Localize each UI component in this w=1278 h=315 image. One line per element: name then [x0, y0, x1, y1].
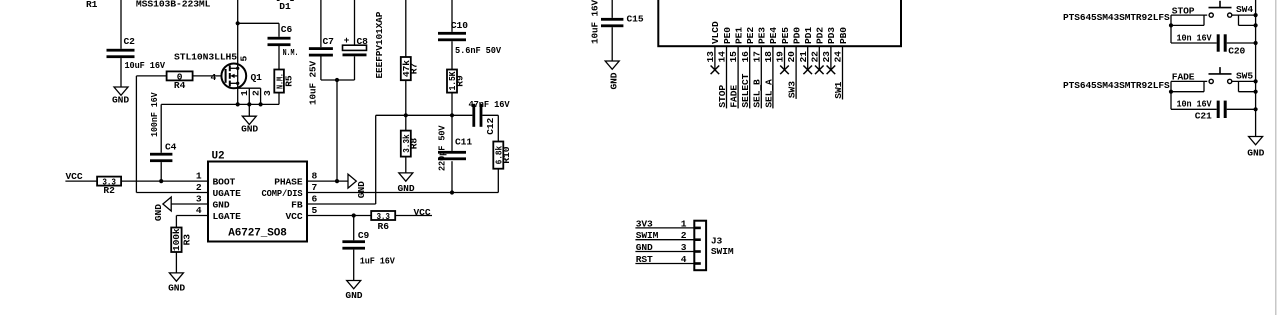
net label STOP [1172, 5, 1195, 16]
pin 13 VLCD [705, 21, 721, 70]
svg-text:10n 16V: 10n 16V [1177, 99, 1212, 110]
svg-text:C15: C15 [627, 13, 644, 24]
pin 15 PE1 [728, 27, 744, 109]
svg-text:R3: R3 [182, 234, 193, 246]
svg-text:C7: C7 [323, 36, 335, 47]
ground [241, 104, 258, 134]
ic U? MCU (body mostly above crop) [658, 0, 901, 46]
svg-text:GND: GND [1247, 148, 1264, 159]
svg-text:COMP/DIS: COMP/DIS [262, 188, 303, 199]
svg-text:PE0: PE0 [722, 27, 733, 44]
wire [451, 93, 453, 116]
pin 21 PD1 [798, 27, 814, 70]
resistor R4 [136, 71, 192, 91]
svg-text:C10: C10 [451, 20, 468, 31]
pin 18 PE4 [763, 27, 779, 109]
svg-text:PE3: PE3 [757, 27, 768, 44]
pin 5 label [238, 56, 249, 62]
wire pin3 [171, 203, 208, 205]
junction [352, 213, 356, 217]
svg-text:SWIM: SWIM [636, 230, 659, 241]
net label SWIM [636, 230, 659, 241]
svg-text:SELECT: SELECT [740, 73, 751, 107]
pin 2 label [251, 90, 262, 96]
svg-text:23: 23 [821, 51, 832, 63]
pin 14 PE0 [717, 27, 733, 109]
svg-text:R2: R2 [103, 185, 115, 196]
net label 3V3 [636, 218, 653, 229]
svg-text:PHASE: PHASE [274, 176, 303, 187]
wire [1171, 14, 1207, 16]
junction [335, 179, 339, 183]
net label SW3 [787, 81, 798, 98]
push-button SW5 part label [1063, 80, 1170, 91]
wire [482, 115, 498, 141]
connector J3 [635, 221, 733, 271]
capacitor C20 [1171, 32, 1256, 56]
svg-text:SW1: SW1 [833, 81, 844, 98]
wire [1171, 80, 1207, 82]
resistor R8 [401, 115, 420, 156]
svg-text:4: 4 [681, 254, 687, 265]
junction [1169, 90, 1173, 94]
resistor R5 [274, 70, 294, 93]
wire [120, 0, 122, 49]
svg-text:GND: GND [213, 199, 230, 210]
resistor R2 [97, 176, 121, 196]
svg-text:PE2: PE2 [745, 27, 756, 44]
capacitor C11 [436, 115, 472, 192]
svg-text:U2: U2 [212, 150, 225, 162]
svg-text:1: 1 [681, 218, 687, 229]
wire [238, 23, 279, 37]
wire [120, 58, 122, 87]
wire [121, 180, 208, 182]
svg-text:100nF 16V: 100nF 16V [149, 92, 160, 137]
resistor R9 [447, 70, 466, 93]
svg-text:3: 3 [681, 242, 687, 253]
svg-text:10uF 16V: 10uF 16V [589, 0, 600, 44]
svg-text:16: 16 [740, 51, 751, 63]
pin 3 label [262, 90, 273, 96]
svg-text:R5: R5 [284, 75, 295, 87]
sheet border [1275, 0, 1277, 315]
wire [1171, 15, 1204, 25]
wire [336, 80, 338, 181]
svg-text:+: + [344, 35, 350, 46]
wire phase/source rail [161, 103, 279, 105]
svg-text:PD3: PD3 [826, 27, 837, 44]
svg-text:14: 14 [717, 51, 728, 63]
junction [236, 102, 263, 106]
ground [112, 87, 129, 106]
svg-text:18: 18 [763, 51, 774, 63]
svg-text:1uF 16V: 1uF 16V [360, 256, 395, 267]
svg-text:1: 1 [196, 171, 202, 182]
svg-text:LGATE: LGATE [213, 211, 242, 222]
no-connect X [711, 66, 720, 75]
wire [1232, 80, 1256, 82]
svg-text:2: 2 [196, 182, 202, 193]
wire [136, 76, 208, 193]
ground [153, 197, 171, 221]
node VCC [65, 171, 97, 182]
junction [1254, 13, 1258, 28]
junction [1254, 79, 1258, 93]
svg-text:2: 2 [681, 230, 687, 241]
wire [1239, 15, 1256, 25]
svg-text:BOOT: BOOT [213, 176, 236, 187]
svg-text:10uF 25V: 10uF 25V [307, 61, 318, 105]
push-button SW4 [1209, 1, 1254, 17]
wire [1170, 15, 1172, 43]
svg-text:3: 3 [196, 193, 202, 204]
svg-text:6: 6 [312, 193, 318, 204]
svg-text:R7: R7 [409, 63, 420, 75]
pin 1 label [239, 90, 250, 96]
net label STOP [717, 85, 728, 108]
svg-text:PTS645SM43SMTR92LFS: PTS645SM43SMTR92LFS [1063, 80, 1170, 91]
svg-text:2: 2 [251, 90, 262, 96]
capacitor C6 [268, 24, 299, 58]
resistor R6 [371, 211, 395, 232]
svg-text:R10: R10 [501, 146, 512, 163]
svg-text:R6: R6 [378, 221, 390, 232]
pin 16 PE2 [740, 27, 756, 109]
svg-text:J3: J3 [711, 235, 723, 246]
svg-text:5.6nF 50V: 5.6nF 50V [455, 45, 501, 56]
svg-text:47nF 16V: 47nF 16V [469, 99, 510, 110]
svg-text:GND: GND [112, 95, 129, 106]
svg-text:GND: GND [241, 124, 258, 135]
wire [321, 79, 355, 81]
svg-text:FB: FB [291, 199, 303, 210]
pin labels 1-4 [681, 218, 687, 265]
ground [398, 173, 415, 194]
svg-text:STOP: STOP [717, 85, 728, 108]
svg-text:N.M.: N.M. [283, 47, 299, 58]
resistor R7 [401, 0, 420, 80]
pin 22 PD2 [809, 27, 825, 70]
net label SEL_B [752, 79, 763, 108]
junction [1254, 41, 1258, 45]
pin 19 PE5 [775, 27, 791, 70]
svg-text:8: 8 [312, 171, 318, 182]
wire [193, 75, 222, 77]
svg-text:20: 20 [786, 51, 797, 63]
wire pin4 [176, 216, 208, 228]
capacitor C15 [589, 0, 644, 61]
svg-text:C20: C20 [1228, 46, 1245, 57]
junction [1169, 23, 1173, 27]
svg-text:GND: GND [356, 181, 367, 198]
svg-text:GND: GND [398, 183, 415, 194]
no-connect X [815, 66, 824, 75]
wire pin8 [307, 180, 348, 182]
svg-text:EEEFPV101XAP: EEEFPV101XAP [374, 11, 385, 78]
svg-text:C12: C12 [485, 117, 496, 134]
svg-text:PE4: PE4 [768, 27, 779, 44]
capacitor C7 [307, 0, 334, 105]
svg-text:Q1: Q1 [251, 72, 263, 83]
wire pin7 [307, 192, 498, 194]
svg-text:C2: C2 [124, 36, 136, 47]
svg-text:RST: RST [636, 254, 653, 265]
net label RST [636, 254, 653, 265]
svg-text:C6: C6 [281, 24, 293, 35]
pin 24 PB0 [833, 27, 849, 100]
svg-text:VCC: VCC [414, 207, 431, 218]
svg-text:PD1: PD1 [803, 27, 814, 44]
svg-text:21: 21 [798, 51, 809, 63]
net label SW1 [833, 81, 844, 98]
ground [345, 281, 362, 302]
svg-text:SWIM: SWIM [711, 246, 734, 257]
net label SEL_A [763, 79, 774, 108]
svg-text:SEL_B: SEL_B [752, 79, 763, 108]
svg-text:C21: C21 [1195, 111, 1212, 122]
junction [404, 113, 454, 117]
wire [278, 93, 280, 105]
svg-text:R4: R4 [174, 80, 186, 91]
svg-text:1: 1 [239, 90, 250, 96]
resistor R10 [493, 142, 512, 169]
svg-text:UGATE: UGATE [213, 188, 242, 199]
no-connect X [780, 66, 789, 75]
capacitor C10 [438, 0, 501, 70]
svg-text:VCC: VCC [66, 171, 83, 182]
svg-text:PB0: PB0 [838, 27, 849, 44]
net label SELECT [740, 73, 751, 107]
wire [175, 252, 177, 273]
svg-text:PD0: PD0 [791, 27, 802, 44]
capacitor C8 (polarized) [343, 0, 385, 80]
svg-text:D1: D1 [279, 1, 291, 12]
wire [237, 0, 239, 68]
svg-text:22: 22 [809, 51, 820, 63]
resistor R3 [171, 228, 192, 253]
svg-text:4: 4 [211, 72, 217, 83]
diode D1 (refdes label, body above crop) [277, 0, 294, 12]
svg-text:C9: C9 [358, 230, 370, 241]
svg-text:GND: GND [345, 290, 362, 301]
svg-text:A6727_SO8: A6727_SO8 [228, 227, 287, 239]
svg-text:24: 24 [833, 51, 844, 63]
svg-text:R9: R9 [455, 75, 466, 87]
svg-text:15: 15 [728, 51, 739, 63]
resistor R1 (refdes label, body above crop) [86, 0, 98, 10]
junction [335, 78, 339, 82]
transistor Q1 [221, 64, 262, 105]
capacitor C4 [149, 92, 177, 181]
svg-text:GND: GND [608, 72, 619, 89]
wire pin5 [307, 215, 371, 217]
net label FADE [1172, 72, 1195, 83]
push-button SW4 part label [1063, 12, 1170, 23]
svg-text:3: 3 [262, 90, 273, 96]
svg-text:SW3: SW3 [787, 81, 798, 98]
svg-text:GND: GND [636, 242, 653, 253]
wire [405, 80, 407, 115]
no-connect X [803, 66, 812, 75]
wire [1239, 81, 1256, 91]
ground [605, 61, 619, 90]
svg-text:VCC: VCC [286, 211, 303, 222]
wire right bus [1255, 0, 1257, 137]
svg-text:VLCD: VLCD [710, 21, 721, 44]
node VCC [395, 207, 432, 218]
wire FB net [376, 114, 473, 116]
svg-text:17: 17 [751, 51, 762, 63]
ground [1247, 137, 1264, 159]
wire [1171, 81, 1204, 91]
capacitor C21 [1171, 99, 1256, 122]
wire [1232, 14, 1256, 16]
pin 17 PE3 [751, 27, 767, 109]
junction [450, 190, 454, 194]
capacitor C2 [107, 36, 166, 71]
svg-text:R1: R1 [86, 0, 98, 10]
svg-text:SW5: SW5 [1236, 70, 1253, 81]
wire [1170, 81, 1172, 109]
svg-text:13: 13 [705, 51, 716, 63]
svg-text:PD2: PD2 [815, 27, 826, 44]
junction [236, 21, 240, 25]
svg-text:SW4: SW4 [1236, 4, 1253, 15]
net label FADE [729, 85, 740, 108]
wire [405, 157, 407, 173]
wire pin6 [307, 115, 376, 204]
svg-text:C8: C8 [357, 36, 369, 47]
ground [168, 273, 185, 294]
svg-text:GND: GND [153, 204, 164, 221]
push-button SW5 [1209, 67, 1254, 83]
wire [278, 45, 280, 69]
svg-text:FADE: FADE [729, 85, 740, 108]
svg-text:4: 4 [196, 205, 202, 216]
svg-text:PE5: PE5 [780, 27, 791, 44]
capacitor C12 [469, 99, 510, 135]
ground [348, 174, 367, 198]
no-connect X [827, 66, 836, 75]
pin 20 PD0 [786, 27, 802, 99]
svg-text:MSS103B-223ML: MSS103B-223ML [136, 0, 211, 9]
svg-text:SEL_A: SEL_A [763, 79, 774, 108]
op-amp/controller U2 A6727_SO8 [196, 150, 318, 241]
svg-text:5: 5 [238, 56, 249, 62]
svg-text:PE1: PE1 [733, 27, 744, 44]
net label GND [636, 242, 653, 253]
capacitor C9 [342, 216, 395, 281]
pin 23 PD3 [821, 27, 837, 70]
pin 4 label [211, 72, 217, 83]
svg-text:3V3: 3V3 [636, 218, 653, 229]
svg-text:19: 19 [775, 51, 786, 63]
svg-text:GND: GND [168, 283, 185, 294]
svg-text:R8: R8 [409, 138, 420, 150]
junction [1254, 107, 1258, 111]
svg-text:5: 5 [312, 205, 318, 216]
inductor L? MSS103B-223ML (value label, body above crop) [136, 0, 211, 9]
svg-text:10n 16V: 10n 16V [1177, 32, 1212, 43]
svg-text:10uF 16V: 10uF 16V [125, 60, 166, 71]
svg-text:STL10N3LLH5: STL10N3LLH5 [174, 52, 237, 63]
junction [159, 179, 163, 183]
svg-text:220pF 50V: 220pF 50V [436, 125, 447, 171]
svg-text:7: 7 [312, 182, 318, 193]
svg-text:C4: C4 [165, 142, 177, 153]
svg-text:C11: C11 [455, 137, 472, 148]
svg-text:PTS645SM43SMTR92LFS: PTS645SM43SMTR92LFS [1063, 12, 1170, 23]
transistor Q1 label [174, 52, 237, 63]
wire [497, 169, 499, 193]
